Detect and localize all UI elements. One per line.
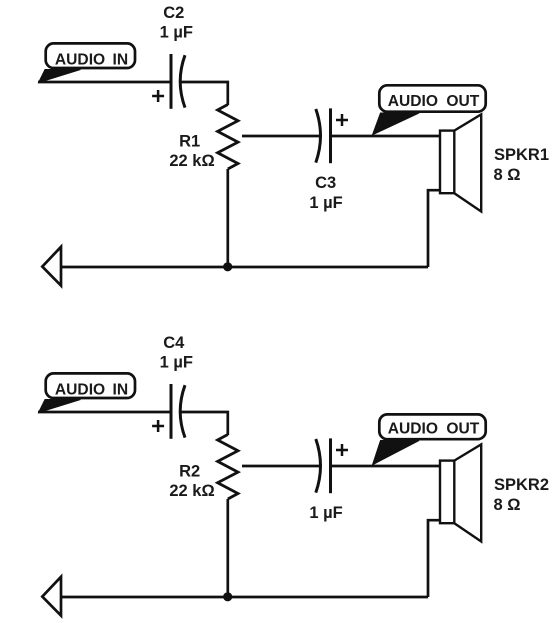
capacitor C4: [152, 334, 193, 439]
wire resistor to ground rail (top): [226, 169, 229, 267]
wire C3 to speaker (top): [331, 135, 441, 138]
resistor R2: [169, 435, 238, 501]
svg-text:1 µF: 1 µF: [160, 24, 193, 42]
svg-text:AUDIO IN: AUDIO IN: [55, 52, 128, 69]
svg-text:22 kΩ: 22 kΩ: [169, 482, 214, 500]
capacitor 1 µF (bottom, unnamed): [309, 438, 348, 521]
svg-text:8 Ω: 8 Ω: [494, 496, 521, 514]
svg-text:SPKR1: SPKR1: [494, 146, 549, 164]
node AUDIO OUT (bottom): [373, 414, 486, 464]
svg-text:SPKR2: SPKR2: [494, 476, 549, 494]
svg-text:R1: R1: [179, 132, 200, 150]
svg-text:R2: R2: [179, 462, 200, 480]
wire resistor tap to C3 (top): [242, 135, 320, 138]
wire resistor to ground rail (bottom): [226, 499, 229, 597]
wire C4 to resistor (bottom): [181, 412, 228, 435]
svg-text:AUDIO OUT: AUDIO OUT: [388, 93, 480, 110]
capacitor C2: [152, 4, 193, 109]
node AUDIO OUT (top): [373, 85, 486, 135]
svg-text:C4: C4: [163, 334, 185, 352]
wire input (bottom): [38, 411, 171, 414]
svg-text:AUDIO OUT: AUDIO OUT: [388, 421, 480, 438]
capacitor C3: [309, 108, 348, 211]
speaker SPKR2: [440, 444, 549, 541]
wire speaker return to rail (top): [428, 190, 440, 267]
wire input (top): [38, 81, 171, 84]
junction dot (top): [223, 262, 232, 271]
svg-text:AUDIO IN: AUDIO IN: [55, 382, 128, 399]
wire resistor tap to C5 (bottom): [242, 465, 320, 468]
junction dot (bottom): [223, 592, 232, 601]
svg-text:1 µF: 1 µF: [160, 354, 193, 372]
ground (top): [42, 247, 61, 286]
wire C2 to resistor (top): [181, 82, 228, 105]
svg-text:8 Ω: 8 Ω: [494, 166, 521, 184]
resistor R1: [169, 105, 238, 171]
speaker SPKR1: [440, 114, 549, 211]
svg-text:1 µF: 1 µF: [309, 194, 342, 212]
svg-text:1 µF: 1 µF: [309, 504, 342, 522]
svg-text:C3: C3: [315, 174, 336, 192]
node AUDIO IN (bottom): [39, 373, 135, 412]
svg-text:C2: C2: [163, 4, 184, 22]
ground (bottom): [42, 577, 61, 616]
wire ground rail (bottom): [61, 596, 428, 599]
svg-text:22 kΩ: 22 kΩ: [169, 152, 214, 170]
node AUDIO IN (top): [39, 43, 135, 82]
wire cap to speaker (bottom): [331, 465, 441, 468]
wire ground rail (top): [61, 266, 428, 269]
wire speaker return to rail (bottom): [428, 520, 440, 597]
